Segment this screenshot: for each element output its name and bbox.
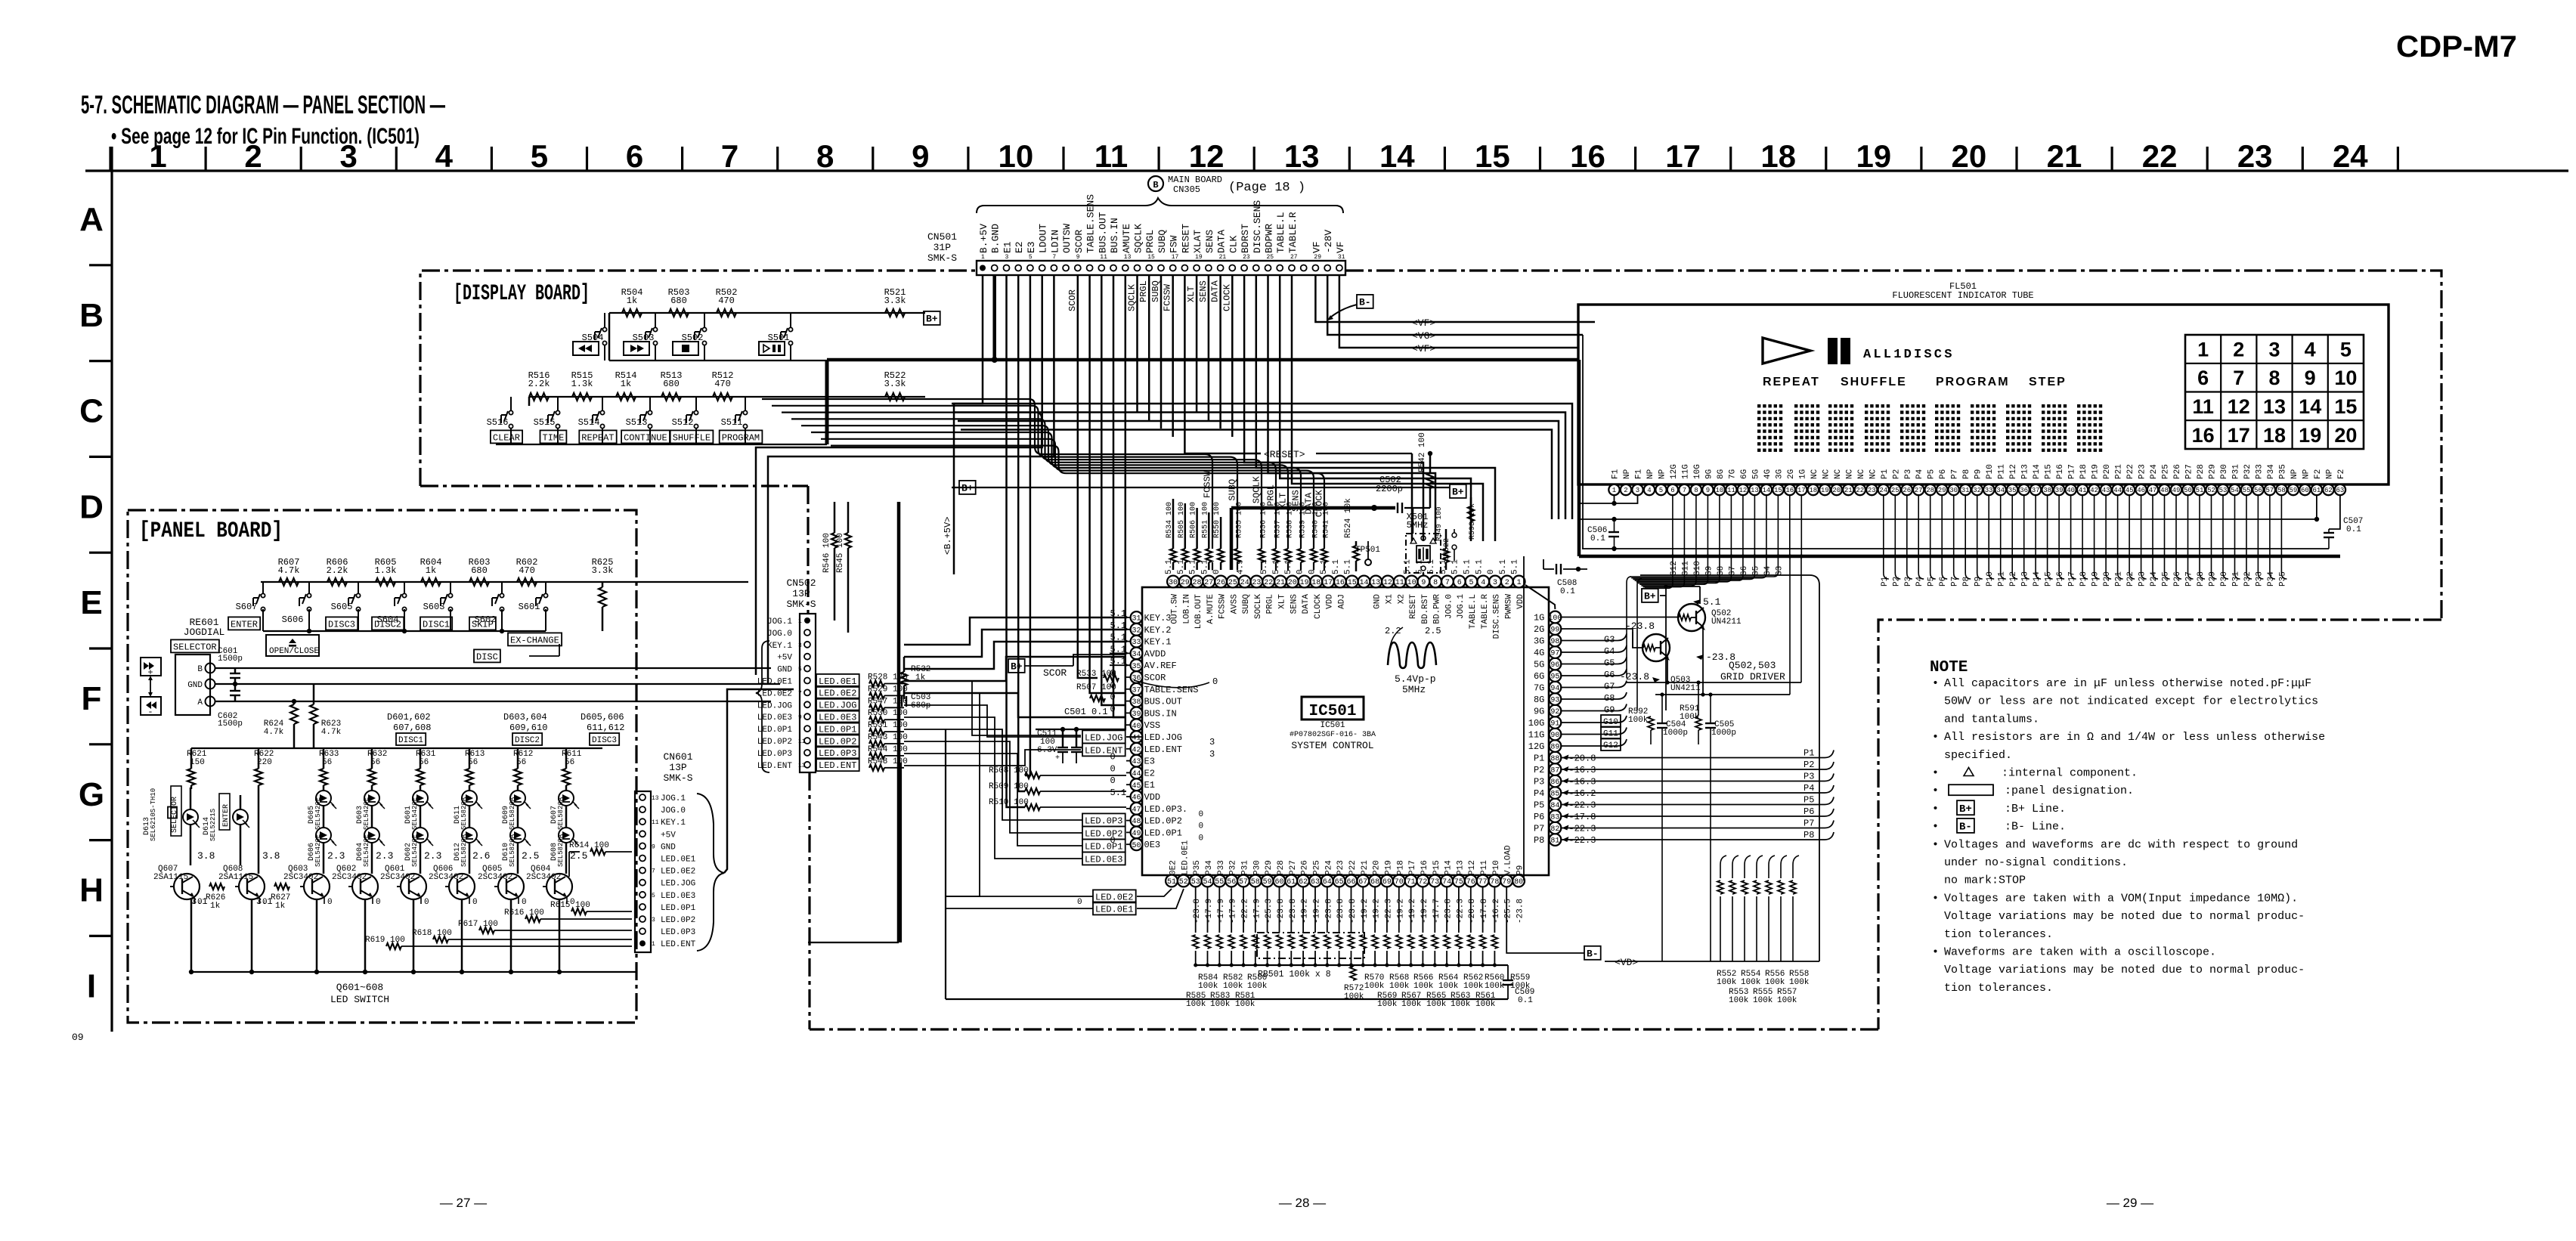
svg-text:5.1: 5.1 [1499,559,1508,574]
pin IC501-98 [1550,635,1562,647]
pin IC501-83 [1550,810,1562,822]
resistor R604 1k [421,578,441,586]
svg-text:41: 41 [1132,735,1141,743]
svg-text:LED.JOG: LED.JOG [1085,732,1122,743]
svg-text:5: 5 [1029,254,1033,261]
svg-text:-19.2: -19.2 [1373,899,1382,924]
pin IC501-38 [1131,695,1143,707]
net label G11 [1561,734,1618,735]
svg-text:TIME: TIME [543,432,565,443]
svg-text:OUT.SW: OUT.SW [1171,594,1180,624]
svg-text:3: 3 [340,138,358,174]
svg-text:19: 19 [1300,579,1309,587]
label box ENTER [228,617,260,630]
svg-text:JOG.0: JOG.0 [1444,594,1454,619]
svg-text:B: B [79,297,104,334]
svg-text:S512: S512 [672,417,694,428]
svg-text:50: 50 [1132,842,1141,850]
svg-text:3G: 3G [1775,469,1784,479]
svg-text:JOG.1: JOG.1 [661,794,686,803]
svg-text:NC: NC [1857,469,1866,479]
svg-text:3: 3 [1636,487,1639,494]
svg-text:SEL5420E: SEL5420E [314,834,322,867]
svg-text:P6: P6 [1804,806,1814,817]
svg-text:5.1: 5.1 [1475,559,1484,574]
switch S516 CLEAR [509,410,512,414]
transistor Q602 2SC3402 [352,874,378,899]
pin IC501-79 [1500,875,1512,887]
svg-text:59: 59 [1263,878,1272,887]
svg-text:27: 27 [1290,254,1298,261]
svg-text:-28V: -28V [1323,230,1334,253]
pin FL501-63 [2335,484,2345,495]
wire SUBQ [772,406,1237,549]
wire VG [1327,274,1583,335]
svg-text:11: 11 [2192,395,2214,418]
pin FL501-6 [1667,484,1678,495]
svg-text:SEL5221S: SEL5221S [209,809,217,841]
wire panel feed lines [568,852,570,877]
svg-text:-17.8: -17.8 [1568,812,1596,822]
resistor R606 2.2k [327,578,347,586]
svg-text:<B.+5V>: <B.+5V> [943,517,953,555]
net label box LED.0P1 [1082,839,1125,852]
pin CN501-17 [1170,265,1176,271]
pin IC501-16 [1334,576,1346,588]
svg-text:GND: GND [777,666,792,675]
pin IC501-96 [1550,658,1562,670]
pin FL501-4 [1644,484,1655,495]
wire display row 2 top [529,396,885,398]
svg-text:62: 62 [1299,878,1308,887]
svg-text:4: 4 [1481,579,1485,587]
svg-text:JOGDIAL: JOGDIAL [184,627,225,638]
svg-text:18: 18 [2263,424,2286,447]
svg-text:SEL5420E: SEL5420E [363,834,370,867]
pin IC501-43 [1131,755,1143,767]
wire PRGL [791,419,1276,549]
pin IC501-94 [1550,682,1562,694]
pin FL501-30 [1949,484,1959,495]
svg-text:SEL5420E: SEL5420E [363,797,370,830]
wire LDOUT LDIN drops [756,274,1042,675]
pin CN502-3 [804,642,810,648]
svg-text:E1: E1 [1002,241,1014,253]
wire G bundle down [1627,577,1631,678]
B+ line box [959,481,976,494]
svg-text:21: 21 [1219,254,1227,261]
pin CN501-21 [1218,265,1224,271]
svg-text:P12: P12 [2009,464,2018,479]
svg-text:43: 43 [2102,487,2110,494]
wire G1 riser [1789,556,1791,695]
svg-text:P15: P15 [1432,860,1441,875]
svg-text:SOCLK: SOCLK [1254,594,1263,619]
svg-text:P18: P18 [1396,860,1405,875]
svg-text:2SA1115: 2SA1115 [218,873,253,882]
svg-text:CLEAR: CLEAR [493,432,520,443]
svg-text:29: 29 [1181,579,1190,587]
pin FL501-27 [1913,484,1924,495]
svg-text:DISC2: DISC2 [374,619,401,630]
svg-text:LED.0P1: LED.0P1 [1085,841,1122,852]
svg-text:UN4211: UN4211 [1670,684,1701,693]
svg-text:7: 7 [798,690,802,697]
svg-text:8: 8 [1694,487,1698,494]
wire P9 riser [1523,556,1525,880]
resistor R521 3.3k [885,309,905,317]
svg-text:I: I [87,967,96,1004]
pin IC501-1 [1513,576,1525,588]
svg-text:OUTSW: OUTSW [1061,224,1073,253]
svg-text:100k: 100k [1364,982,1385,991]
svg-text:P18: P18 [2079,464,2088,479]
pin IC501-5 [1466,576,1478,588]
svg-text:3: 3 [1209,737,1215,747]
jog icon forward [141,658,161,676]
pin FL501-2 [1621,484,1631,495]
pin CN601-8 [639,856,646,862]
svg-text:21: 21 [1276,579,1285,587]
pin FL501-17 [1796,484,1807,495]
svg-text:LED.0P3: LED.0P3 [661,928,695,937]
label box TIME [540,430,567,443]
svg-text:P33: P33 [2255,464,2264,479]
svg-text:P10: P10 [1986,464,1995,479]
pin FL501-53 [2218,484,2228,495]
B- line box bottom [1584,946,1601,960]
svg-text:-22.3: -22.3 [1568,800,1596,811]
svg-text:•: • [1932,821,1939,834]
svg-text:0: 0 [1296,569,1305,574]
svg-text:0: 0 [1199,810,1204,819]
svg-text:FCSSW: FCSSW [1218,594,1228,619]
svg-text:7: 7 [652,868,655,875]
pin CN501-28 [1301,265,1307,271]
pin IC501-33 [1131,636,1143,648]
wire stubs into left pins [1126,676,1131,678]
svg-text:R619 100: R619 100 [365,936,405,945]
board boundary dash-dot main top right [1345,271,2441,620]
transistor Q607 2SA1115 [174,874,200,899]
pin CN601-3 [639,916,646,922]
svg-text:E: E [80,584,102,621]
svg-text:tion tolerances.: tion tolerances. [1944,982,2053,995]
pin FL501-43 [2101,484,2111,495]
svg-text:5MHz: 5MHz [1407,520,1429,531]
pin IC501-67 [1357,875,1369,887]
svg-text:SYSTEM CONTROL: SYSTEM CONTROL [1291,740,1373,751]
pin IC501-47 [1131,803,1143,815]
svg-text:D601,602: D601,602 [387,712,431,723]
pin IC501-56 [1225,875,1237,887]
svg-text:2: 2 [244,138,262,174]
svg-text:R508 100: R508 100 [989,766,1029,775]
svg-text:P4: P4 [1804,783,1814,794]
svg-text:2SA1115: 2SA1115 [153,873,188,882]
grid ruler left [110,147,113,1032]
svg-text:•: • [1932,946,1939,959]
svg-text:0E3: 0E3 [1144,840,1161,850]
svg-text:Waveforms are taken with a osc: Waveforms are taken with a oscilloscope. [1944,946,2216,959]
svg-text:42: 42 [1132,746,1141,754]
svg-text:1000p: 1000p [1663,729,1688,738]
svg-text:(Page 18 ): (Page 18 ) [1228,181,1305,195]
svg-text:JOG.0: JOG.0 [661,806,686,815]
pin FL501-25 [1890,484,1900,495]
svg-text:14: 14 [1762,487,1770,494]
svg-text:CN502: CN502 [786,577,816,589]
label box DISC2 [372,617,404,630]
svg-text:P26: P26 [2173,464,2182,479]
svg-text:•: • [1932,892,1939,905]
svg-text:17: 17 [1324,579,1333,587]
svg-text:P28: P28 [1277,860,1286,875]
svg-text:P25: P25 [1313,860,1322,875]
pin IC501-55 [1213,875,1225,887]
svg-text:24: 24 [2333,138,2368,174]
svg-text:-19.2: -19.2 [1408,899,1417,924]
svg-text:44: 44 [2113,487,2122,494]
svg-text:20: 20 [1952,138,1987,174]
svg-text:9: 9 [652,843,655,850]
svg-text:0: 0 [424,898,429,907]
wire +5V thick [897,502,901,942]
svg-text:C: C [79,393,104,430]
svg-text:NC: NC [1810,469,1819,479]
svg-text:44: 44 [1132,770,1141,778]
svg-text:18: 18 [1809,487,1817,494]
pin FL501-40 [2065,484,2076,495]
svg-text:P22: P22 [2126,464,2135,479]
wire FL filament F1 [1614,495,1615,503]
svg-text:2G: 2G [1787,469,1796,479]
svg-text:LED.ENT: LED.ENT [1085,745,1122,756]
pin CN501-2 [992,265,998,271]
LED D601 SEL5420E [413,791,428,806]
svg-text:5.1: 5.1 [1404,559,1413,574]
svg-text:51: 51 [2196,487,2204,494]
svg-text:P17: P17 [1408,860,1417,875]
svg-text:-19.2: -19.2 [1313,899,1322,924]
B+ line box [924,311,940,325]
switch S602 [500,593,503,597]
svg-text:55: 55 [2243,487,2251,494]
svg-text:F: F [82,680,102,717]
svg-text:GND: GND [1373,594,1382,609]
svg-text:LED.0P2: LED.0P2 [1085,828,1122,839]
svg-text:SEL5820A: SEL5820A [557,834,565,867]
svg-text:52: 52 [1179,878,1188,887]
svg-text:-22.3: -22.3 [1456,899,1465,924]
svg-text:26: 26 [1903,487,1911,494]
svg-text:GND: GND [661,843,676,852]
svg-text:E3: E3 [1026,241,1037,253]
svg-text:PRGL: PRGL [1138,280,1149,302]
pin IC501-28 [1191,576,1203,588]
svg-text:G4: G4 [1763,565,1773,576]
svg-text:4G: 4G [1763,469,1773,479]
net label box LED.JOG [1082,730,1125,743]
svg-text:17: 17 [2228,424,2250,447]
svg-text:LOB.OUT: LOB.OUT [1194,594,1203,630]
pin IC501-64 [1321,875,1333,887]
svg-text:P5: P5 [1534,800,1544,811]
wire thick AVSS feed [1231,506,1395,510]
svg-text:•: • [1932,677,1939,690]
svg-text:-16.3: -16.3 [1568,765,1596,775]
wire CLOCK [831,446,1324,549]
svg-text:1500p: 1500p [218,655,243,664]
svg-text:P2: P2 [1804,760,1814,770]
svg-text:19: 19 [2299,424,2321,447]
wire FL filament F2 [2316,495,2317,519]
svg-text:NC: NC [1845,469,1854,479]
svg-text:<VD>: <VD> [1615,957,1638,968]
svg-text:1: 1 [149,138,166,174]
pin CN501-7 [1051,265,1057,271]
pin CN501-24 [1253,265,1259,271]
svg-text:3: 3 [1005,254,1009,261]
svg-text:-17.9: -17.9 [1205,899,1214,924]
svg-text:5: 5 [531,138,548,174]
wire LED boxes to IC weave [904,681,1081,735]
svg-text:0: 0 [1487,569,1496,574]
pin IC501-10 [1406,576,1418,588]
svg-text:39: 39 [1132,710,1141,719]
svg-text:0: 0 [1199,822,1204,831]
svg-text:D: D [79,488,104,525]
label box EX-CHANGE [508,633,562,645]
icon play triangle [1763,338,1810,364]
svg-text:S605: S605 [331,602,353,612]
svg-text:SCOR: SCOR [1144,673,1166,683]
svg-text:PROGRAM: PROGRAM [722,432,760,443]
svg-text:3.3k: 3.3k [592,565,614,576]
svg-text:13: 13 [652,795,659,802]
net label box LED.ENT [1082,743,1125,756]
svg-text:28: 28 [1192,579,1201,587]
svg-text:TABLE.R: TABLE.R [1481,594,1490,630]
svg-text:100k: 100k [1741,978,1761,987]
switch S512 SHUFFLE [694,410,698,414]
svg-text:4: 4 [435,138,454,174]
svg-text:5G: 5G [1534,660,1544,670]
svg-text:31P: 31P [933,242,952,253]
svg-text:P8: P8 [1962,469,1971,479]
svg-text:10: 10 [2334,367,2357,389]
pin FL501-23 [1866,484,1877,495]
pin FL501-19 [1819,484,1830,495]
wire VD feed corner [1640,575,1819,961]
svg-text:0: 0 [376,898,381,907]
pin FL501-33 [1983,484,1994,495]
svg-text:G3: G3 [1775,566,1784,576]
svg-text:P27: P27 [1289,860,1298,875]
svg-text:69: 69 [1382,878,1392,887]
svg-text:63: 63 [2336,487,2344,494]
resistor R572 100k [1350,967,1356,980]
svg-text:BD.PWR: BD.PWR [1433,594,1442,624]
net label box LED.ENT [816,758,859,771]
pin IC501-9 [1418,576,1430,588]
svg-text:-23.8: -23.8 [1516,899,1525,924]
pin FL501-59 [2288,484,2299,495]
pin IC501-91 [1550,716,1562,729]
svg-text:22: 22 [1264,579,1273,587]
svg-text:SEL5820A: SEL5820A [509,834,516,867]
B+ line box near AVDD [1008,659,1025,673]
svg-text:89: 89 [1550,744,1559,752]
svg-text:TABLE.SENS: TABLE.SENS [1144,685,1199,695]
switch S606 [307,593,311,597]
wire resistor rail [1196,964,1508,966]
pin IC501-24 [1239,576,1251,588]
pin CN501-26 [1277,265,1283,271]
svg-text:P1: P1 [1534,754,1544,764]
pin FL501-18 [1808,484,1819,495]
resistor R514 1k [616,393,636,401]
wire FL grid/anode drops [1672,495,1673,556]
svg-text:P6: P6 [1534,812,1544,822]
net label box LED.0P2 [1082,826,1125,839]
pin IC501-87 [1550,763,1562,775]
svg-text:16: 16 [2192,424,2215,447]
svg-text:P20: P20 [2103,464,2112,479]
pin FL501-48 [2159,484,2169,495]
svg-text:12: 12 [1383,579,1392,587]
label box SELECTOR [171,639,219,652]
svg-text:-: - [147,707,153,717]
svg-text:SUBQ: SUBQ [1228,479,1238,501]
svg-text:-22.2: -22.2 [1241,899,1250,924]
svg-text:5.1: 5.1 [1284,559,1293,574]
svg-text:5.1: 5.1 [1272,559,1281,574]
svg-text:B.+5V: B.+5V [978,224,989,253]
svg-text:46: 46 [1132,794,1141,803]
switch S513 CONTINUE [648,410,652,414]
pin CN601-9 [639,843,646,849]
svg-text:45: 45 [2126,487,2134,494]
pin IC501-88 [1550,752,1562,764]
svg-text:1: 1 [1517,579,1522,587]
svg-text:<VG>: <VG> [1412,330,1435,342]
svg-text:680: 680 [471,565,488,576]
pin CN501-27 [1289,265,1295,271]
svg-text:<VF>: <VF> [1412,317,1435,329]
svg-text:18: 18 [1311,579,1321,587]
svg-text:61: 61 [2312,487,2321,494]
panel board boundary dash-dot box [128,510,636,1023]
board boundary dash-dot display board top [420,271,977,486]
svg-text:100k: 100k [1344,992,1364,1001]
svg-text:NC: NC [1834,469,1843,479]
svg-text:22: 22 [1856,487,1864,494]
pin FL501-34 [1995,484,2006,495]
pin IC501-3 [1489,576,1501,588]
svg-text:4: 4 [2305,339,2316,361]
pin CN501-10 [1087,265,1093,271]
svg-text:12: 12 [1738,487,1747,494]
switch S515 TIME [556,410,559,414]
transistor Q603 2SC3402 [304,874,330,899]
pin IC501-39 [1131,707,1143,720]
svg-text:P23: P23 [2138,464,2147,479]
svg-text:REPEAT: REPEAT [581,432,614,443]
svg-text:P5: P5 [1804,795,1814,806]
svg-text:680: 680 [663,379,680,389]
svg-text:R507 100: R507 100 [1076,683,1116,692]
